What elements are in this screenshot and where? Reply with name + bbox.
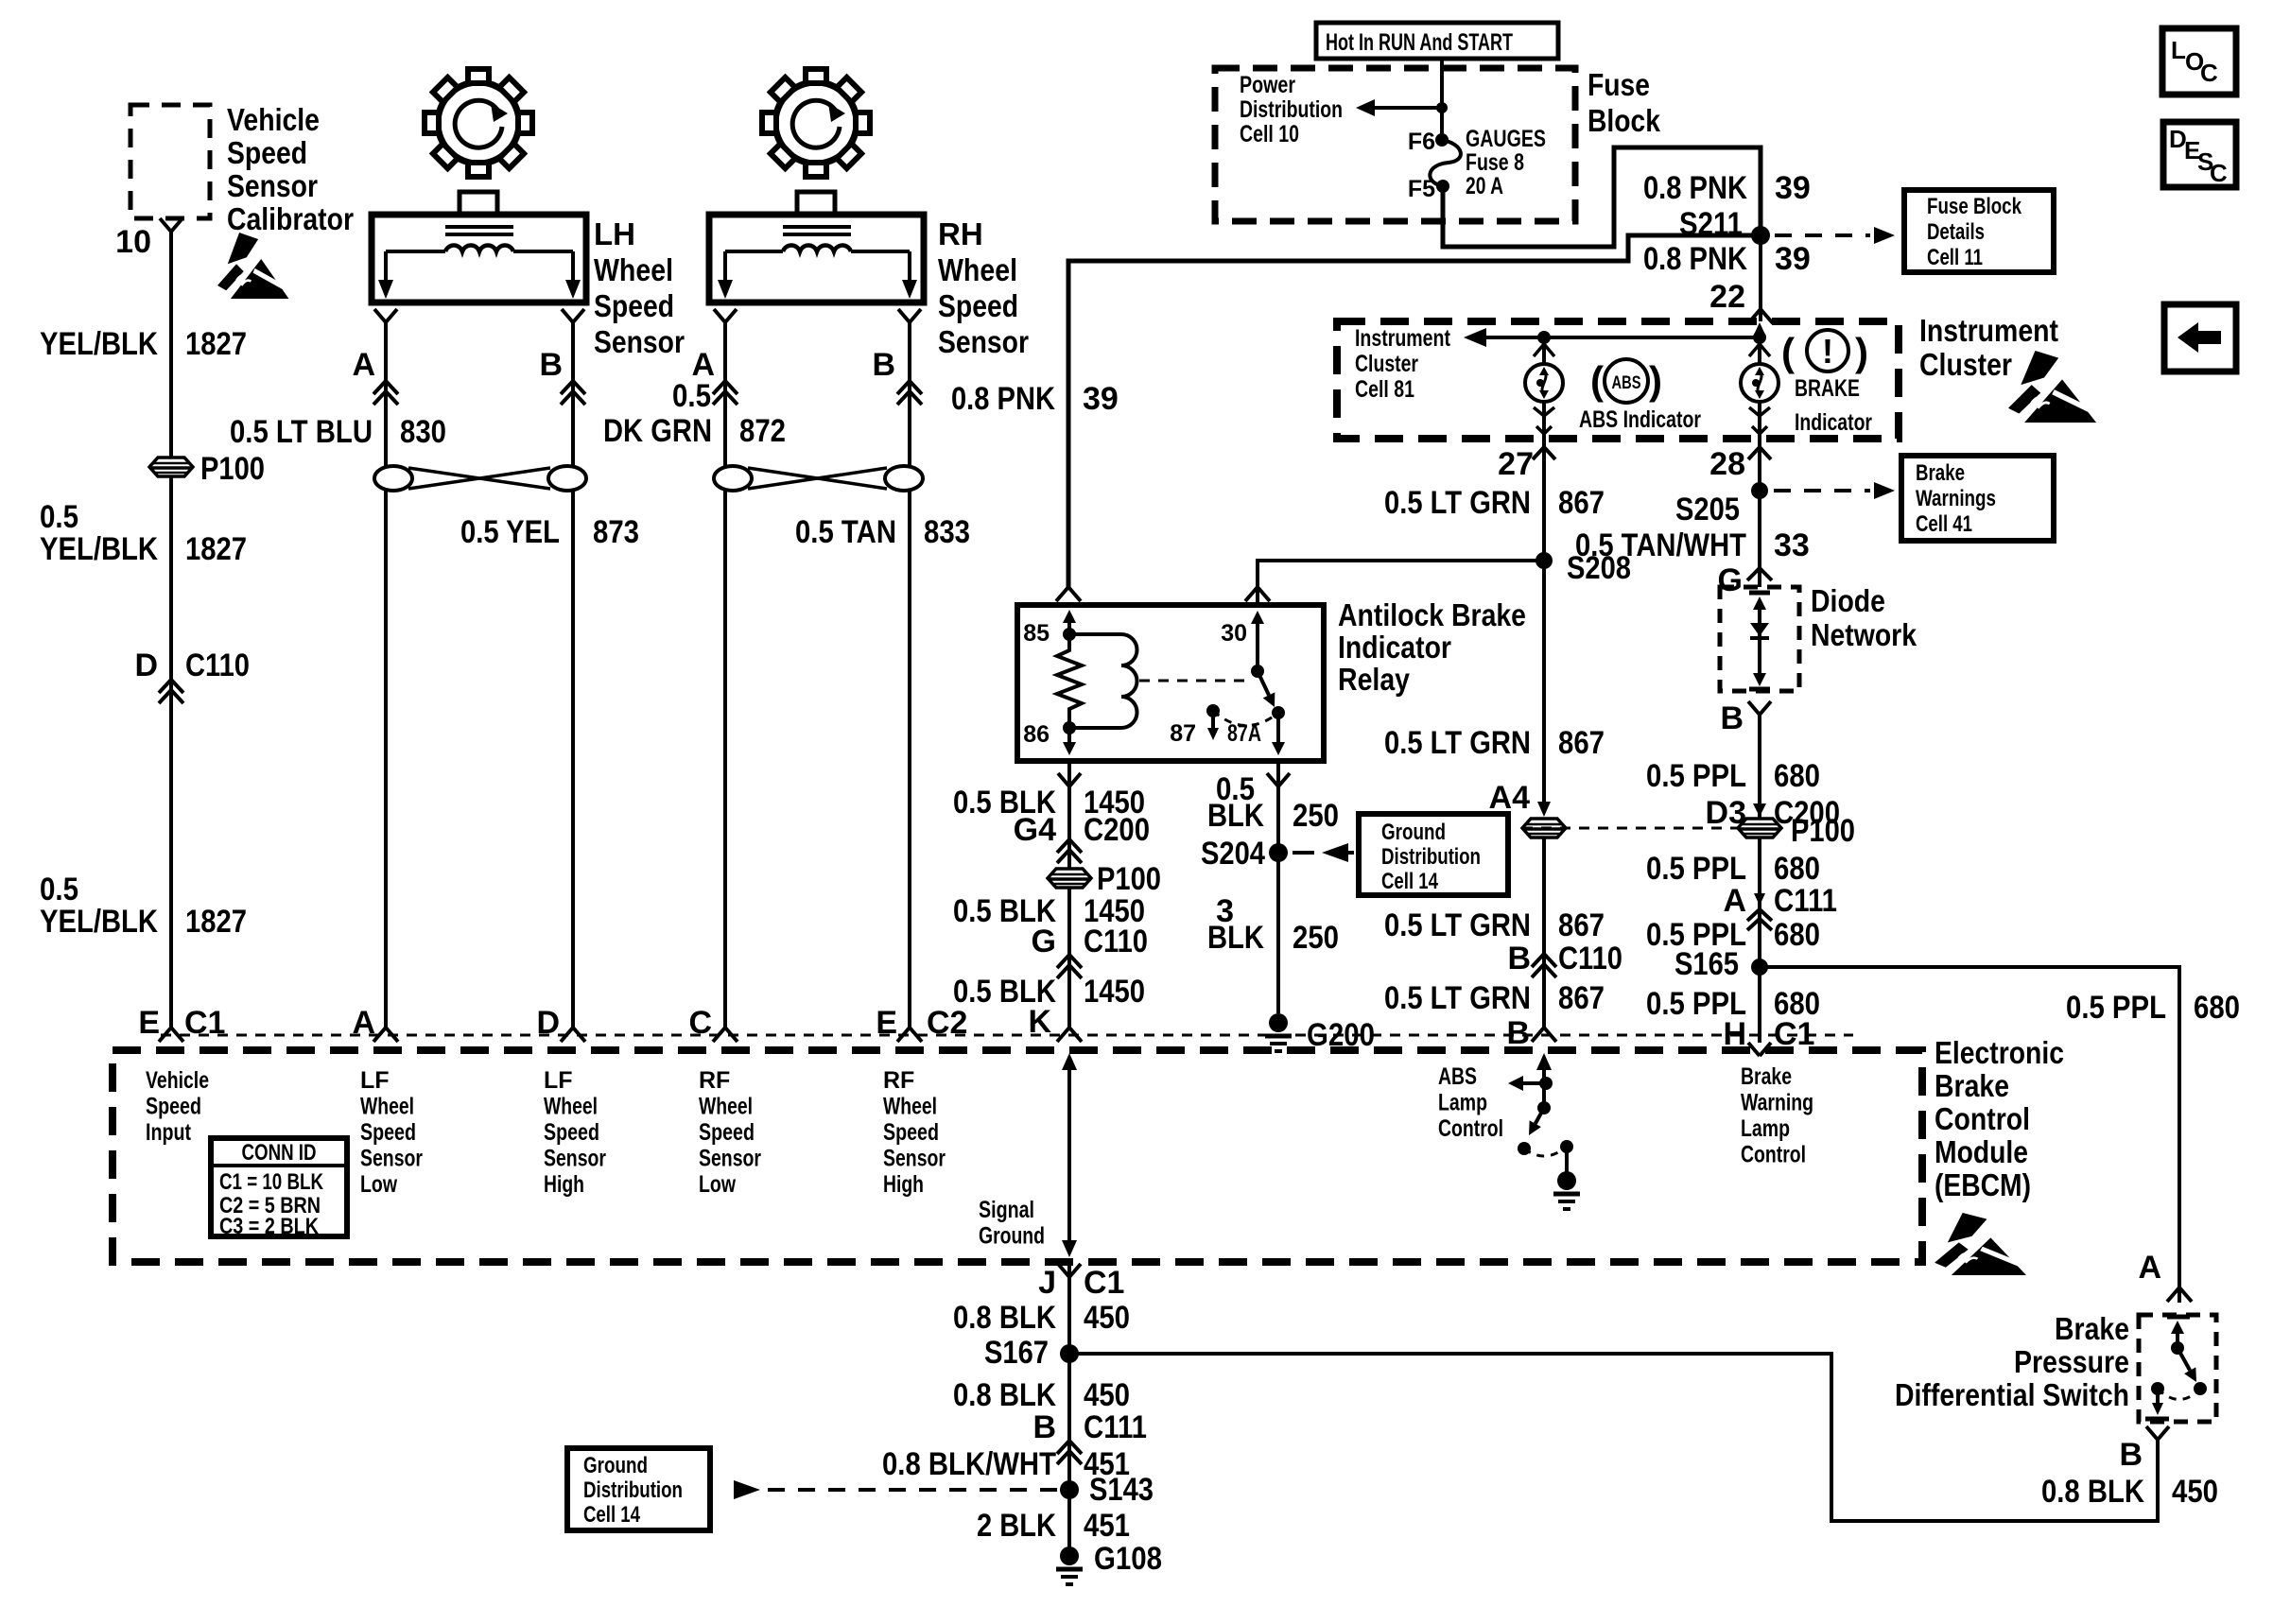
svg-text:0.5: 0.5 [40, 499, 78, 535]
svg-text:): ) [1649, 358, 1662, 403]
svg-text:Vehicle: Vehicle [146, 1067, 209, 1094]
svg-text:S167: S167 [984, 1335, 1049, 1371]
svg-text:Speed: Speed [938, 288, 1018, 323]
svg-text:Low: Low [360, 1171, 397, 1198]
svg-text:C111: C111 [1084, 1409, 1147, 1445]
svg-text:Block: Block [1588, 103, 1661, 138]
svg-text:K: K [1028, 1004, 1051, 1040]
svg-text:872: 872 [739, 413, 786, 449]
svg-text:ABS: ABS [1612, 373, 1641, 393]
svg-text:C: C [2210, 159, 2228, 187]
svg-text:Low: Low [699, 1171, 736, 1198]
svg-text:833: 833 [924, 514, 970, 550]
svg-text:Details: Details [1927, 219, 1985, 245]
svg-text:Speed: Speed [883, 1119, 939, 1146]
svg-text:0.8 PNK: 0.8 PNK [1643, 241, 1747, 277]
svg-text:Ground: Ground [583, 1453, 648, 1478]
svg-text:B: B [1507, 941, 1531, 976]
svg-text:A: A [352, 347, 375, 383]
svg-text:680: 680 [2194, 990, 2240, 1026]
svg-text:1450: 1450 [1084, 974, 1145, 1010]
svg-text:S143: S143 [1089, 1472, 1154, 1508]
svg-text:Cell 14: Cell 14 [1381, 869, 1438, 894]
svg-text:G: G [1032, 924, 1056, 959]
svg-text:C1: C1 [1084, 1265, 1124, 1301]
svg-text:Brake: Brake [1916, 460, 1965, 486]
svg-text:B: B [539, 347, 563, 383]
svg-text:Ground: Ground [979, 1223, 1045, 1250]
svg-text:Distribution: Distribution [583, 1477, 683, 1503]
svg-text:CONN ID: CONN ID [242, 1140, 317, 1166]
svg-text:0.8 PNK: 0.8 PNK [951, 381, 1055, 417]
svg-text:Cell 14: Cell 14 [583, 1502, 640, 1528]
svg-text:YEL/BLK: YEL/BLK [40, 904, 158, 940]
svg-text:G4: G4 [1014, 812, 1056, 848]
svg-text:450: 450 [1084, 1377, 1130, 1413]
svg-text:28: 28 [1709, 446, 1745, 482]
svg-text:(: ( [1781, 330, 1795, 374]
svg-text:BLK: BLK [1207, 920, 1264, 956]
svg-text:Distribution: Distribution [1240, 96, 1343, 123]
svg-text:680: 680 [1774, 851, 1820, 887]
svg-text:Cell 81: Cell 81 [1355, 376, 1414, 403]
svg-text:Cell 10: Cell 10 [1240, 121, 1299, 147]
svg-text:Distribution: Distribution [1381, 844, 1481, 870]
svg-text:Cluster: Cluster [1355, 351, 1418, 377]
svg-text:Electronic: Electronic [1935, 1035, 2064, 1070]
svg-text:87: 87 [1170, 720, 1196, 747]
svg-text:D: D [134, 648, 158, 683]
svg-text:Cell 41: Cell 41 [1916, 511, 1972, 537]
svg-text:0.5 TAN/WHT: 0.5 TAN/WHT [1575, 527, 1746, 563]
svg-text:Antilock Brake: Antilock Brake [1338, 597, 1526, 632]
svg-text:10: 10 [115, 224, 151, 260]
svg-text:A: A [2138, 1250, 2161, 1286]
svg-text:Input: Input [146, 1119, 192, 1146]
svg-text:Fuse: Fuse [1588, 67, 1650, 102]
svg-text:0.8 BLK: 0.8 BLK [953, 1300, 1056, 1336]
svg-text:B: B [1506, 1015, 1530, 1051]
svg-text:0.5 LT GRN: 0.5 LT GRN [1384, 907, 1531, 943]
svg-text:S204: S204 [1201, 836, 1265, 872]
svg-text:Hot In RUN And START: Hot In RUN And START [1326, 29, 1513, 56]
svg-text:(: ( [1590, 358, 1604, 403]
svg-text:830: 830 [400, 414, 446, 450]
svg-text:0.5 PPL: 0.5 PPL [2066, 990, 2166, 1026]
svg-text:ABS: ABS [1438, 1063, 1477, 1090]
svg-text:Speed: Speed [544, 1119, 599, 1146]
svg-text:680: 680 [1774, 758, 1820, 794]
svg-text:Instrument: Instrument [1919, 313, 2058, 348]
svg-text:0.5 LT GRN: 0.5 LT GRN [1384, 980, 1531, 1016]
svg-text:P100: P100 [1097, 861, 1161, 897]
svg-text:20 A: 20 A [1466, 173, 1503, 199]
svg-text:YEL/BLK: YEL/BLK [40, 326, 158, 362]
svg-text:30: 30 [1221, 620, 1247, 647]
svg-text:Sensor: Sensor [699, 1146, 761, 1172]
svg-text:Wheel: Wheel [594, 252, 673, 287]
svg-text:Sensor: Sensor [938, 324, 1029, 359]
svg-text:BLK: BLK [1207, 798, 1264, 834]
svg-text:S211: S211 [1679, 206, 1743, 242]
svg-text:RH: RH [938, 216, 983, 251]
svg-text:Sensor: Sensor [594, 324, 685, 359]
svg-text:Module: Module [1935, 1134, 2028, 1169]
svg-text:Diode: Diode [1811, 583, 1885, 618]
svg-text:867: 867 [1558, 725, 1605, 761]
svg-text:C110: C110 [185, 648, 250, 683]
svg-text:F6: F6 [1408, 129, 1435, 155]
svg-text:C110: C110 [1558, 941, 1622, 976]
svg-text:873: 873 [593, 514, 639, 550]
svg-text:Lamp: Lamp [1741, 1115, 1790, 1142]
svg-text:Vehicle: Vehicle [227, 102, 320, 137]
svg-text:Brake: Brake [2055, 1311, 2129, 1346]
svg-text:Warnings: Warnings [1916, 486, 1996, 511]
svg-text:A: A [1723, 883, 1746, 919]
svg-text:Wheel: Wheel [938, 252, 1017, 287]
svg-text:Pressure: Pressure [2014, 1344, 2129, 1379]
svg-text:Wheel: Wheel [699, 1094, 753, 1120]
svg-text:0.5 PPL: 0.5 PPL [1646, 851, 1746, 887]
svg-text:C200: C200 [1084, 812, 1150, 848]
svg-text:High: High [883, 1171, 924, 1198]
svg-text:Speed: Speed [699, 1119, 755, 1146]
svg-text:0.8 BLK/WHT: 0.8 BLK/WHT [882, 1446, 1056, 1482]
svg-text:Differential Switch: Differential Switch [1895, 1377, 2129, 1412]
svg-text:L: L [2171, 36, 2186, 64]
svg-text:Indicator: Indicator [1795, 409, 1872, 436]
svg-text:BRAKE: BRAKE [1795, 375, 1860, 402]
svg-text:0.8 BLK: 0.8 BLK [953, 1377, 1056, 1413]
svg-text:Fuse 8: Fuse 8 [1466, 149, 1524, 176]
svg-text:Speed: Speed [227, 135, 307, 170]
svg-text:DK GRN: DK GRN [603, 413, 712, 449]
svg-text:YEL/BLK: YEL/BLK [40, 531, 158, 567]
svg-text:B: B [1032, 1409, 1056, 1445]
svg-text:1827: 1827 [185, 326, 247, 362]
svg-text:0.5 YEL: 0.5 YEL [460, 514, 560, 550]
svg-text:S205: S205 [1675, 492, 1740, 527]
svg-text:Network: Network [1811, 617, 1917, 652]
svg-text:0.5 TAN: 0.5 TAN [795, 514, 896, 550]
svg-text:85: 85 [1023, 620, 1050, 647]
svg-text:LH: LH [594, 216, 635, 251]
svg-text:G108: G108 [1094, 1541, 1162, 1577]
svg-text:Signal: Signal [979, 1197, 1034, 1223]
svg-text:ABS Indicator: ABS Indicator [1579, 406, 1701, 433]
svg-text:0.8 BLK: 0.8 BLK [2041, 1474, 2144, 1510]
svg-text:C3 = 2 BLK: C3 = 2 BLK [219, 1214, 320, 1239]
svg-text:LF: LF [544, 1067, 573, 1094]
svg-text:Sensor: Sensor [544, 1146, 606, 1172]
svg-text:High: High [544, 1171, 584, 1198]
svg-text:Control: Control [1935, 1101, 2030, 1136]
svg-text:B: B [872, 347, 895, 383]
svg-text:1827: 1827 [185, 904, 247, 940]
svg-text:C1 = 10 BLK: C1 = 10 BLK [219, 1169, 324, 1195]
svg-text:Brake: Brake [1935, 1068, 2009, 1103]
svg-text:0.5 LT GRN: 0.5 LT GRN [1384, 725, 1531, 761]
svg-text:Wheel: Wheel [360, 1094, 414, 1120]
svg-text:0.5: 0.5 [672, 378, 711, 414]
svg-text:27: 27 [1498, 446, 1534, 482]
svg-text:Fuse Block: Fuse Block [1927, 194, 2022, 219]
svg-text:Calibrator: Calibrator [227, 201, 354, 236]
svg-text:867: 867 [1558, 485, 1605, 521]
svg-text:Brake: Brake [1741, 1063, 1792, 1090]
svg-text:250: 250 [1293, 920, 1339, 956]
svg-text:0.5 PPL: 0.5 PPL [1646, 758, 1746, 794]
svg-text:Speed: Speed [594, 288, 674, 323]
svg-text:22: 22 [1709, 279, 1745, 315]
svg-text:Warning: Warning [1741, 1090, 1813, 1116]
svg-text:J: J [1038, 1265, 1056, 1301]
svg-text:(EBCM): (EBCM) [1935, 1167, 2031, 1202]
svg-text:451: 451 [1084, 1508, 1130, 1544]
svg-text:867: 867 [1558, 980, 1605, 1016]
svg-text:Instrument: Instrument [1355, 325, 1451, 352]
svg-text:39: 39 [1775, 170, 1811, 206]
svg-text:33: 33 [1774, 527, 1810, 563]
svg-text:86: 86 [1023, 721, 1050, 748]
svg-text:Speed: Speed [360, 1119, 416, 1146]
svg-text:S165: S165 [1674, 946, 1739, 982]
svg-text:Control: Control [1741, 1142, 1806, 1168]
svg-text:E: E [138, 1005, 160, 1041]
svg-text:Indicator: Indicator [1338, 630, 1451, 665]
svg-text:Wheel: Wheel [883, 1094, 937, 1120]
svg-text:Cluster: Cluster [1919, 347, 2012, 382]
svg-text:): ) [1855, 330, 1868, 374]
svg-text:C110: C110 [1084, 924, 1148, 959]
svg-text:Relay: Relay [1338, 662, 1411, 697]
svg-text:0.8 PNK: 0.8 PNK [1643, 170, 1747, 206]
svg-text:Sensor: Sensor [883, 1146, 946, 1172]
svg-text:Ground: Ground [1381, 820, 1446, 845]
svg-text:A4: A4 [1489, 780, 1531, 816]
svg-text:G200: G200 [1307, 1017, 1375, 1053]
svg-text:1827: 1827 [185, 531, 247, 567]
svg-text:250: 250 [1293, 798, 1339, 834]
svg-text:GAUGES: GAUGES [1466, 126, 1546, 152]
svg-text:680: 680 [1774, 917, 1820, 953]
svg-text:39: 39 [1083, 381, 1119, 417]
svg-text:450: 450 [2172, 1474, 2218, 1510]
svg-text:P100: P100 [200, 451, 265, 487]
svg-text:B: B [1720, 700, 1744, 736]
svg-text:C111: C111 [1774, 883, 1837, 919]
svg-text:2 BLK: 2 BLK [977, 1508, 1056, 1544]
svg-text:87A: 87A [1227, 720, 1261, 747]
svg-text:Cell 11: Cell 11 [1927, 245, 1983, 270]
svg-text:C: C [2200, 59, 2218, 87]
svg-text:Power: Power [1240, 72, 1295, 98]
svg-text:450: 450 [1084, 1300, 1130, 1336]
svg-text:Control: Control [1438, 1115, 1503, 1142]
svg-text:Sensor: Sensor [227, 168, 318, 203]
svg-text:C200: C200 [1774, 795, 1840, 831]
svg-text:0.5 LT BLU: 0.5 LT BLU [230, 414, 373, 450]
svg-text:Sensor: Sensor [360, 1146, 423, 1172]
svg-text:LF: LF [360, 1067, 390, 1094]
svg-text:RF: RF [883, 1067, 914, 1094]
svg-text:0.5 LT GRN: 0.5 LT GRN [1384, 485, 1531, 521]
svg-text:39: 39 [1775, 241, 1811, 277]
svg-text:Speed: Speed [146, 1094, 201, 1120]
svg-text:0.5: 0.5 [40, 872, 78, 907]
svg-text:867: 867 [1558, 907, 1605, 943]
svg-text:Lamp: Lamp [1438, 1090, 1487, 1116]
svg-text:RF: RF [699, 1067, 730, 1094]
svg-text:Wheel: Wheel [544, 1094, 598, 1120]
svg-text:!: ! [1822, 332, 1833, 371]
svg-text:B: B [2119, 1437, 2143, 1473]
